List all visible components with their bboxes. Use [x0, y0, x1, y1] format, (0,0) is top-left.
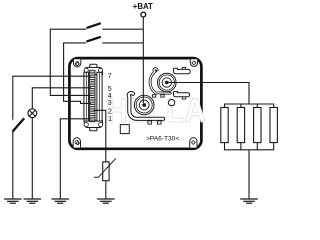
screw boss TR	[190, 59, 197, 66]
svg-text:+BAT: +BAT	[133, 2, 153, 11]
pin labels	[108, 73, 112, 123]
switch S2 wire right	[102, 42, 143, 44]
glow plug R4	[254, 108, 261, 143]
switch S1 wire left	[50, 29, 86, 95]
terminal strap lower (around terminal 30)	[129, 93, 163, 119]
svg-text:>PA6-T30<: >PA6-T30<	[146, 136, 179, 143]
lamp H1	[28, 109, 37, 118]
connector X1 body	[84, 64, 103, 131]
strap upper feet	[152, 95, 155, 97]
ground G5	[240, 199, 258, 203]
ground G2	[24, 199, 42, 203]
fuse link capsule top	[173, 67, 190, 73]
terminal 30a center dot	[165, 81, 169, 85]
crossing jogs (junction blobs)	[49, 75, 64, 96]
wire pin4 into connector	[85, 94, 92, 96]
switch S3 wire to ground	[12, 131, 14, 199]
+BAT terminal circle	[141, 12, 146, 17]
hole (small circle)	[168, 99, 174, 105]
connector right rail	[97, 72, 102, 121]
switch S2 blade	[86, 37, 100, 42]
fuse link capsule bottom	[173, 92, 189, 99]
svg-text:1: 1	[108, 116, 112, 123]
screw boss BR	[190, 138, 197, 148]
wire pin5 to lamp	[32, 88, 91, 109]
connector left rail	[84, 72, 89, 121]
lamp wire to ground	[31, 118, 33, 199]
glow plug pack bottom bus	[225, 143, 274, 150]
wire terminal 30a to glow plugs	[167, 83, 249, 105]
thermistor R1 body	[103, 162, 109, 181]
switch S1 blade	[86, 23, 100, 28]
svg-text:5: 5	[108, 86, 112, 93]
glow plug pack top bus	[225, 104, 274, 108]
square pad inside box	[120, 125, 129, 134]
terminal 30a upper (to glow plugs)	[158, 73, 177, 92]
terminal 30 center dot	[142, 103, 146, 107]
ground G4	[97, 199, 115, 203]
svg-text:2: 2	[108, 108, 112, 115]
glow plug pack wire to ground	[248, 150, 250, 199]
thermistor wire to ground	[105, 181, 107, 199]
relay module box U1	[69, 58, 201, 149]
wire pin7 from switch S3	[13, 76, 91, 120]
switch S3 blade	[13, 118, 25, 131]
terminal strap upper (around terminal 30a)	[150, 69, 170, 94]
switch S2 wire left	[64, 43, 91, 104]
connector top cap	[90, 64, 97, 68]
svg-text:4: 4	[108, 93, 112, 100]
wire pin1 to ground	[60, 119, 91, 199]
strap lower feet	[148, 121, 152, 124]
wire +BAT vertical	[142, 17, 144, 103]
thermistor strike	[94, 158, 116, 177]
ground G1	[4, 199, 22, 203]
wire pin2 to thermistor	[93, 110, 106, 162]
connector pin strip hatching	[90, 72, 95, 121]
glow plug R3	[237, 108, 244, 143]
terminal 30 lower (+BAT)	[134, 95, 154, 115]
glow plug R2	[221, 108, 228, 143]
switch S1 wire right	[102, 28, 143, 30]
glow plug R5	[270, 108, 277, 143]
connector pin strip	[90, 70, 95, 121]
ground G3	[52, 199, 70, 203]
svg-text:3: 3	[108, 100, 112, 107]
svg-text:7: 7	[108, 73, 112, 80]
screw boss BL	[73, 138, 80, 148]
connector bottom cap	[90, 127, 97, 131]
screw boss TL	[74, 59, 81, 67]
